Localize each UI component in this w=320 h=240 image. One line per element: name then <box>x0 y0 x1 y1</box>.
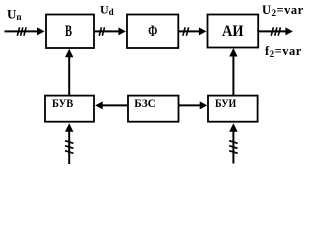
block BUV (rectifier control unit) <box>45 96 94 122</box>
hatch 3-phase on input wire <box>17 27 26 36</box>
arrowhead into B <box>37 27 45 35</box>
wire BUV up to B <box>68 55 70 96</box>
arrowhead into AI bottom <box>229 48 237 57</box>
arrowhead into BUI bottom <box>229 123 237 132</box>
arrowhead into AI <box>199 27 207 35</box>
svg-text:f2=var: f2=var <box>265 44 302 59</box>
hatch 3-phase on output wire <box>271 27 280 36</box>
block B (rectifier) <box>46 15 94 49</box>
svg-text:БУИ: БУИ <box>215 96 237 110</box>
block F (filter) <box>127 15 178 49</box>
svg-text:АИ: АИ <box>222 23 244 40</box>
wire F to AI <box>179 30 200 32</box>
svg-text:Uп: Uп <box>7 7 22 23</box>
block BUI (inverter control unit) <box>208 96 258 122</box>
arrowhead into BUV <box>95 101 103 109</box>
arrowhead into F <box>118 27 126 35</box>
wire BZS to BUV <box>103 104 129 106</box>
wire AI to output <box>259 30 287 32</box>
arrowhead into BUI <box>200 101 208 109</box>
wire feedback up into BUV bottom <box>68 129 70 164</box>
svg-text:Ud: Ud <box>100 3 114 18</box>
svg-text:БУВ: БУВ <box>52 96 73 110</box>
wire feedback up into BUI bottom <box>232 129 234 164</box>
output arrowhead <box>285 27 293 35</box>
wire BUI up to AI <box>232 55 234 96</box>
hatch 3-phase on BUV feedback wire <box>65 141 73 154</box>
block AI (autonomous inverter) <box>208 15 259 48</box>
wire input to B <box>5 30 39 32</box>
hatch 3-phase on BUI feedback wire <box>229 141 237 154</box>
arrowhead into B bottom <box>65 49 73 58</box>
arrowhead into BUV bottom <box>65 123 73 132</box>
wire B to F <box>95 30 120 32</box>
block BZS (speed setting unit) <box>128 96 179 122</box>
wire BZS to BUI <box>179 104 201 106</box>
hatch 2 on B-F wire <box>99 27 104 36</box>
hatch 2 on F-AI wire <box>183 27 189 36</box>
svg-text:БЗС: БЗС <box>134 96 156 110</box>
svg-text:В: В <box>65 23 72 40</box>
svg-text:Ф: Ф <box>148 23 157 40</box>
svg-text:U2=var: U2=var <box>262 3 304 18</box>
